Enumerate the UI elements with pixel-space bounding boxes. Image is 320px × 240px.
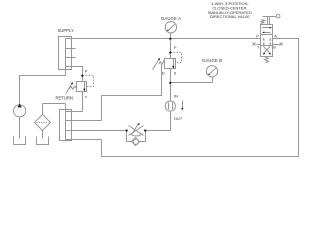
svg-text:P: P <box>174 45 177 50</box>
svg-text:P: P <box>256 34 259 39</box>
svg-text:D: D <box>162 70 165 75</box>
svg-text:IN: IN <box>174 93 178 98</box>
svg-text:GAUGE A: GAUGE A <box>161 16 181 21</box>
svg-text:DIRECTIONAL VALVE: DIRECTIONAL VALVE <box>210 14 250 19</box>
svg-text:OUT: OUT <box>174 116 183 121</box>
svg-text:P: P <box>85 69 88 74</box>
svg-text:RETURN: RETURN <box>55 95 72 100</box>
svg-text:A: A <box>274 34 277 39</box>
svg-text:B: B <box>273 44 276 49</box>
svg-text:SUPPLY: SUPPLY <box>58 28 74 33</box>
svg-text:S: S <box>174 70 177 75</box>
svg-text:GAUGE B: GAUGE B <box>202 58 222 63</box>
svg-text:T: T <box>257 44 260 49</box>
svg-text:T: T <box>85 95 88 100</box>
